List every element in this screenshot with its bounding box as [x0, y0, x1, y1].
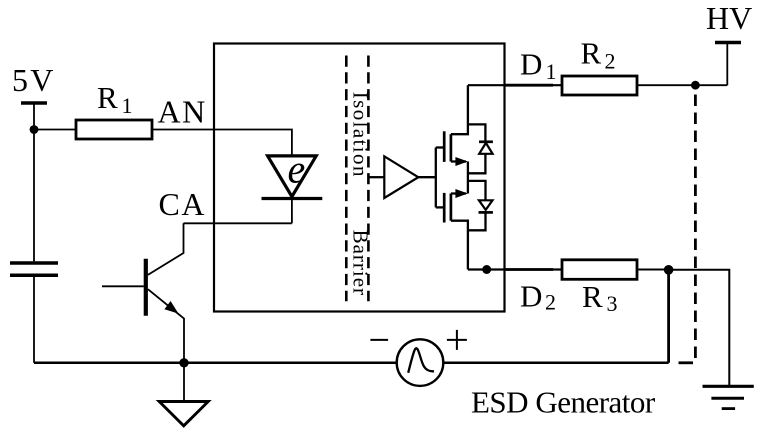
wire D1 rail: [468, 84, 562, 86]
earth ground symbol bar2: [711, 397, 744, 400]
wire to right ground: [669, 270, 730, 386]
svg-text:1: 1: [546, 59, 557, 84]
source ESD generator circle: [397, 339, 444, 386]
transistor M2 source wire: [451, 221, 468, 270]
diode D-bot cathode bar: [479, 211, 493, 214]
wire capacitor top: [33, 130, 35, 262]
svg-text:R: R: [581, 36, 602, 71]
svg-text:2: 2: [545, 290, 556, 315]
wire buffer output: [418, 176, 436, 178]
resistor R2: [562, 76, 637, 95]
wire top body diode branch upper: [468, 124, 486, 141]
transistor M2 drain arrow: [455, 189, 468, 198]
wire D2 rail: [468, 268, 562, 270]
node D2 inner junction dot: [482, 265, 491, 274]
source ESD pulse waveform: [408, 348, 434, 373]
transistor M2 channel bar: [450, 194, 453, 221]
resistor R1: [76, 120, 152, 139]
svg-text:Barrier: Barrier: [349, 230, 373, 296]
capacitor C1 bottom plate: [10, 274, 58, 278]
node R3 junction dot: [664, 265, 674, 275]
transistor M1 channel bar: [450, 134, 453, 161]
wire capacitor bottom: [33, 277, 35, 363]
svg-text:D: D: [520, 278, 542, 313]
wire gate stub top: [436, 146, 444, 148]
wire LED cathode to CA: [291, 199, 293, 224]
svg-text:CA: CA: [159, 186, 206, 222]
wire mid node vertical: [467, 162, 469, 194]
5V supply bar: [21, 101, 47, 104]
transistor Q1 base wire: [102, 285, 144, 287]
transistor Q1 emitter arrow: [164, 301, 178, 314]
wire HV vertical: [726, 43, 728, 86]
svg-text:ESD Generator: ESD Generator: [471, 385, 656, 420]
wire CA net: collector to LED cathode: [184, 222, 292, 224]
label plus: [447, 330, 467, 350]
svg-text:V: V: [30, 62, 53, 98]
svg-text:R: R: [582, 279, 603, 314]
capacitor C1 top plate: [10, 261, 58, 265]
label minus: [370, 339, 388, 341]
wire AN net: R1 to LED anode: [152, 130, 292, 156]
wire bottom rail right: [443, 362, 668, 365]
optocoupler U1 body box: [214, 44, 505, 312]
diode LED cathode bar: [262, 197, 323, 200]
ground symbol: [159, 402, 208, 426]
transistor M1 source wire: [451, 160, 466, 162]
svg-text:R: R: [97, 80, 118, 115]
transistor M1 source arrow: [455, 157, 468, 166]
diode LED emitter triangle: [268, 156, 317, 197]
transistor Q1 collector: [148, 223, 184, 275]
svg-text:D: D: [520, 46, 542, 81]
wire 5V bar to node: [33, 103, 35, 130]
diode D-bot triangle: [479, 200, 493, 210]
wire R2 to HV: [637, 84, 727, 86]
node 5V junction dot: [30, 125, 39, 134]
transistor M1 drain wire: [451, 85, 468, 134]
svg-text:Isolation: Isolation: [349, 92, 373, 178]
svg-text:1: 1: [122, 93, 133, 118]
wire node to R1: [34, 129, 76, 131]
isolation barrier dashed line left: [345, 56, 348, 302]
earth ground symbol bar3: [722, 407, 735, 410]
dashed HV return path: [694, 95, 697, 363]
wire bottom body diode branch upper: [468, 181, 486, 200]
diode D-top cathode bar: [479, 140, 493, 143]
wire bottom rail left: [34, 362, 397, 365]
wire gate bus: [435, 148, 437, 208]
transistor M2 drain wire: [451, 192, 466, 194]
node HV junction dot: [691, 81, 700, 90]
diode D-top triangle: [479, 143, 492, 154]
op-amp buffer U2: [384, 156, 418, 198]
transistor M2 gate bar: [443, 193, 446, 223]
wire R3 to node: [637, 269, 669, 271]
svg-text:3: 3: [607, 291, 618, 316]
wire buffer input stub: [369, 176, 384, 178]
HV supply bar: [715, 41, 741, 44]
earth ground symbol bar1: [703, 385, 754, 388]
svg-text:AN: AN: [158, 94, 207, 130]
svg-text:HV: HV: [706, 0, 752, 36]
svg-text:5: 5: [12, 62, 28, 98]
wire top body diode branch lower: [468, 154, 486, 174]
wire gate stub bottom: [436, 206, 444, 208]
svg-text:2: 2: [605, 48, 616, 73]
ground stub: [183, 363, 185, 402]
node ground junction dot: [179, 358, 188, 367]
svg-text:e: e: [288, 146, 306, 191]
wire ESD return vertical: [667, 270, 670, 363]
isolation barrier dashed line right: [367, 56, 370, 302]
transistor M1 gate bar: [443, 131, 446, 162]
wire bottom body diode branch lower: [468, 212, 486, 230]
transistor Q1 base bar: [144, 259, 148, 316]
resistor R3: [562, 260, 637, 280]
transistor Q1 emitter: [148, 289, 184, 363]
